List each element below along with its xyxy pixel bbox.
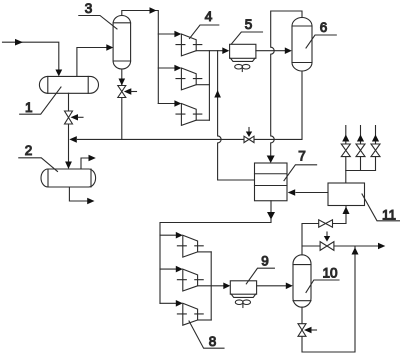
wire vessel 1 to column 3: [77, 48, 107, 77]
wire stage 3 discharge: [196, 119, 209, 121]
wire branch to compressor stage 3: [158, 103, 175, 105]
svg-text:5: 5: [245, 17, 253, 32]
vessel 1 tangent lines: [48, 76, 88, 93]
shaft stage 2: [176, 78, 202, 80]
compressor 4 stage 1: [181, 34, 196, 56]
cooler 9 skirt: [231, 294, 255, 297]
box 7: [255, 163, 288, 201]
shaft stage 1: [176, 44, 202, 46]
valve on product line: [320, 242, 334, 251]
label 4: [190, 9, 219, 39]
cooler 5 skirt: [231, 58, 255, 61]
label 3: [79, 1, 117, 29]
wire branch to compressor 8 stage 2: [160, 268, 176, 270]
compressor 4 stage 3: [181, 104, 196, 126]
valve letdown on recycle: [244, 136, 254, 142]
wire recontact gas riser from box 7: [218, 51, 255, 180]
shaft stage 3: [176, 113, 202, 115]
vent line 1: [341, 126, 350, 171]
wire feed line into vessel 1: [3, 42, 59, 71]
arrow into vessel 6: [285, 47, 292, 54]
arrow riser up: [214, 90, 221, 98]
label 1: [20, 87, 61, 115]
wire stage 1 discharge to cooler 5: [196, 50, 222, 52]
wire vessel 10 bottoms loop: [302, 246, 355, 352]
label 7: [284, 149, 317, 181]
wire discharge collector: [208, 51, 210, 121]
arrow into vessel 1 top: [55, 70, 62, 77]
arrow up into box 11: [343, 207, 350, 215]
arrow branch 3: [174, 100, 181, 107]
arrow recycle into vessel 1 bottoms line: [69, 136, 77, 143]
compressor 8 stage 1: [183, 235, 198, 257]
arrow branch 1: [174, 31, 181, 38]
arrow box 7 bottoms down: [267, 212, 275, 220]
box 11: [328, 183, 365, 206]
arrow onto letdown valve: [246, 128, 252, 138]
arrow into vessel 2: [65, 162, 72, 170]
wire stage 2 discharge: [196, 84, 209, 86]
label 8: [189, 321, 224, 349]
label 2: [19, 143, 58, 172]
arrow into box 7 top: [267, 156, 275, 164]
arrow onto product valve: [324, 232, 330, 242]
cooler 5: [230, 44, 256, 58]
compressor 8 stage 2: [183, 269, 198, 291]
arrow into cooler 5: [222, 47, 229, 54]
vessel 10: [293, 255, 311, 307]
svg-text:1: 1: [25, 100, 33, 115]
vessel 6: [292, 18, 312, 72]
label 5: [231, 17, 262, 44]
wire vessel 2 overhead: [81, 158, 89, 169]
wire stage 3 discharge: [198, 319, 212, 321]
arrow overhead: [150, 7, 157, 14]
arrow into box 7 right: [288, 189, 296, 196]
cooler 5 fan: [235, 64, 250, 71]
wire column 3 bottoms: [121, 69, 123, 139]
arrow pointing at valve: [304, 327, 317, 333]
wire vessel 10 overhead to box 11: [302, 206, 346, 255]
vent line 3: [371, 126, 380, 171]
svg-text:2: 2: [25, 143, 33, 158]
shaft stage 3: [177, 313, 203, 315]
valve on overhead line: [319, 220, 333, 228]
wire box 11 to box 7: [296, 192, 328, 194]
arrow branch 2: [174, 65, 181, 72]
wire branch to compressor 8 stage 1: [160, 234, 176, 236]
svg-text:7: 7: [298, 149, 306, 164]
wire vent header: [346, 171, 376, 184]
valve vessel 1 bottoms: [65, 111, 73, 124]
compressor 8 stage 3: [183, 303, 198, 325]
svg-text:9: 9: [261, 254, 269, 269]
svg-text:8: 8: [209, 334, 217, 349]
arrow feed right: [15, 39, 23, 46]
wire vessel 2 bottoms: [69, 187, 87, 201]
shaft stage 2: [177, 279, 203, 281]
wire cooler 5 to vessel 6: [256, 50, 285, 52]
svg-text:10: 10: [322, 266, 337, 281]
vessel 2 tangent lines: [48, 169, 91, 187]
arrow branch 1: [176, 232, 183, 239]
arrow into cooler 9: [223, 283, 230, 290]
arrow branch 2: [176, 266, 183, 273]
wire vessel 6 bottoms recycle: [78, 71, 303, 139]
wire branch to compressor stage 2: [158, 67, 175, 69]
compressor 4 stage 2: [181, 68, 196, 90]
arrow into vessel 10: [286, 283, 293, 290]
arrow into column 3: [106, 44, 113, 51]
wire stage 1 discharge: [198, 251, 212, 253]
arrow branch 3: [176, 300, 183, 307]
label 6: [306, 20, 336, 48]
vent line 2: [356, 126, 365, 171]
vessel 10 tangent lines: [293, 265, 311, 301]
cooler 9: [230, 281, 256, 294]
arrow pointing at valve: [124, 88, 137, 94]
wire branch to compressor 8 stage 3: [160, 302, 176, 304]
svg-text:3: 3: [85, 1, 93, 16]
wire column 3 overhead to suction manifold: [122, 11, 159, 104]
arrow vessel 2 overhead: [89, 155, 96, 162]
wire lower discharge collector: [210, 252, 212, 320]
arrow vessel 2 bottoms: [87, 198, 94, 205]
arrow product right: [378, 243, 385, 250]
wire vessel 6 overhead to box 7: [271, 11, 302, 156]
wire vessel 1 bottoms to vessel 2: [68, 93, 70, 162]
shaft stage 1: [177, 245, 203, 247]
label 10: [306, 266, 339, 293]
column 3 tangent lines: [113, 23, 131, 61]
wire branch to compressor stage 1: [158, 33, 175, 35]
label 9: [246, 254, 274, 284]
valve column 3 bottoms: [118, 86, 126, 98]
svg-text:6: 6: [320, 20, 328, 35]
vessel 6 tangent lines: [292, 26, 312, 63]
arrow up join product line: [352, 247, 359, 254]
wire stage 2 discharge to cooler 9: [198, 285, 224, 287]
label 11: [362, 194, 400, 223]
cooler 9 fan: [235, 300, 250, 308]
vessel 2: [41, 169, 96, 187]
wire product line: [302, 245, 379, 247]
svg-text:4: 4: [205, 9, 213, 24]
wire box 7 bottoms to lower manifold: [160, 201, 271, 304]
valve vessel 10 bottoms: [298, 324, 306, 337]
arrow down to valve: [119, 79, 126, 86]
vessel 1: [39, 76, 98, 93]
column 3: [113, 16, 131, 70]
arrow pointing at valve: [71, 114, 84, 120]
wire cooler 9 to vessel 10: [257, 285, 286, 287]
box 7 internal lines: [255, 174, 288, 186]
